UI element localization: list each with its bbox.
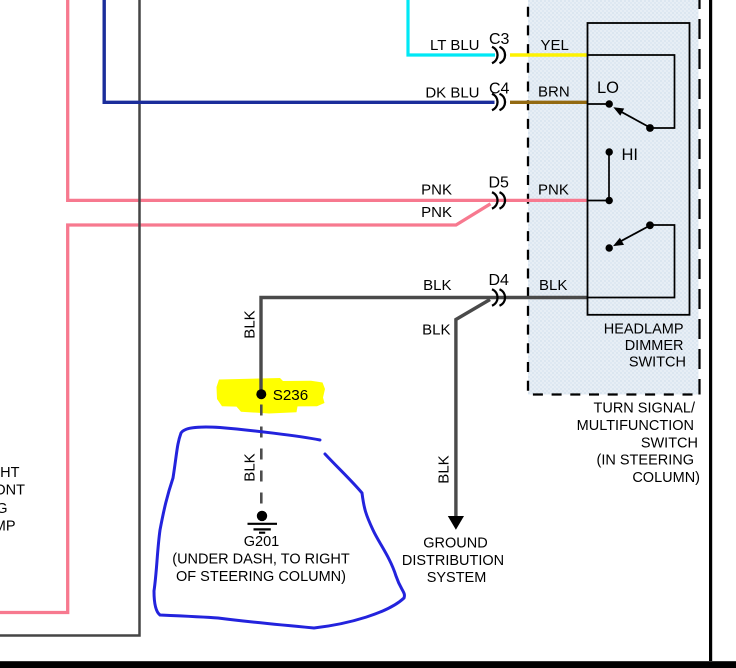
svg-text:LT BLU: LT BLU [430,37,479,54]
wire PNK (upper, from top to connector D5) [68,0,588,200]
svg-text:BLK: BLK [423,277,451,294]
svg-text:COLUMN): COLUMN) [632,470,700,486]
wire DK BLU (from top to connector C4) [104,0,494,102]
svg-text:BLK: BLK [539,277,567,294]
contact PNK pin [606,197,613,204]
connector D4 [492,289,505,306]
switch pivot (lower throw) [646,221,654,229]
wire BLK (horizontal from splice S236 riser to connector D4) [261,298,493,393]
wire BLK (dashed, splice S236 to ground G201) [260,405,263,509]
svg-text:LO: LO [597,79,619,97]
switch pivot (LO throw) [646,124,654,132]
svg-text:PNK: PNK [421,181,452,198]
svg-text:NG: NG [0,501,8,517]
svg-text:RONT: RONT [0,483,25,499]
svg-text:BLK: BLK [436,455,453,483]
highlight marker over splice S236 [217,378,326,414]
svg-text:SYSTEM: SYSTEM [427,570,487,586]
svg-text:TURN SIGNAL/: TURN SIGNAL/ [593,401,695,417]
pin path from YEL input inside switch [588,55,675,128]
wire BLK (diagonal from connector D4 down to ground distribution arrow) [456,300,490,517]
svg-text:DK BLU: DK BLU [425,85,479,102]
svg-text:HI: HI [622,146,639,164]
svg-text:YEL: YEL [541,37,569,54]
wire PNK (lower, exits left edge at bottom, to connector D5) [0,204,491,613]
svg-text:MULTIFUNCTION: MULTIFUNCTION [577,418,694,434]
splice S236 [256,389,266,399]
svg-text:G201: G201 [244,534,279,550]
svg-text:GHT: GHT [0,465,20,481]
wire GRY (full height, exits bottom left) [0,0,140,636]
svg-text:PNK: PNK [421,204,452,221]
svg-text:SWITCH: SWITCH [629,355,686,371]
arrowhead to GROUND DISTRIBUTION SYSTEM [448,516,464,530]
connector C4 [492,94,505,111]
svg-text:PNK: PNK [538,181,569,198]
switch arm to LO [621,112,649,127]
svg-text:BRN: BRN [538,84,570,101]
wire LT BLU (from top to connector C3) [408,0,495,55]
svg-text:(IN STEERING: (IN STEERING [597,453,694,469]
svg-text:AMP: AMP [0,519,16,535]
ground G201 symbol [248,511,278,533]
annotation blue pen loop around G201 [154,427,404,628]
svg-text:HEADLAMP: HEADLAMP [604,322,684,338]
svg-text:BLK: BLK [242,310,259,338]
page border (bottom bar) [0,661,736,668]
svg-text:C4: C4 [489,81,510,98]
switch arm lower [621,226,649,241]
wire BRN (connector C4 to switch) [510,101,588,104]
pin path from BLK input inside switch [588,225,675,298]
node TURN SIGNAL/MULTIFUNCTION SWITCH dashed enclosure (shaded) [528,0,700,395]
svg-text:S236: S236 [273,387,308,404]
svg-text:DIMMER: DIMMER [625,338,684,354]
svg-text:OF STEERING COLUMN): OF STEERING COLUMN) [176,569,346,585]
svg-text:GROUND: GROUND [423,536,487,552]
contact LO [606,100,613,107]
contact lower [606,244,613,251]
component HEADLAMP DIMMER SWITCH (body) [588,23,690,315]
connector C3 [492,47,505,64]
wire YEL (connector C3 to switch) [510,53,588,56]
wire BLK (connector D4 to switch) [493,296,588,299]
svg-text:SWITCH: SWITCH [641,435,698,451]
svg-text:C3: C3 [489,31,510,48]
svg-text:BLK: BLK [422,322,450,339]
svg-text:D4: D4 [489,272,510,289]
svg-text:BLK: BLK [242,453,259,481]
connector D5 [492,192,505,209]
svg-text:D5: D5 [489,175,510,192]
contact HI [606,148,613,155]
svg-text:DISTRIBUTION: DISTRIBUTION [402,553,504,569]
page border (right) [709,0,712,661]
svg-text:(UNDER DASH, TO RIGHT: (UNDER DASH, TO RIGHT [172,552,350,568]
